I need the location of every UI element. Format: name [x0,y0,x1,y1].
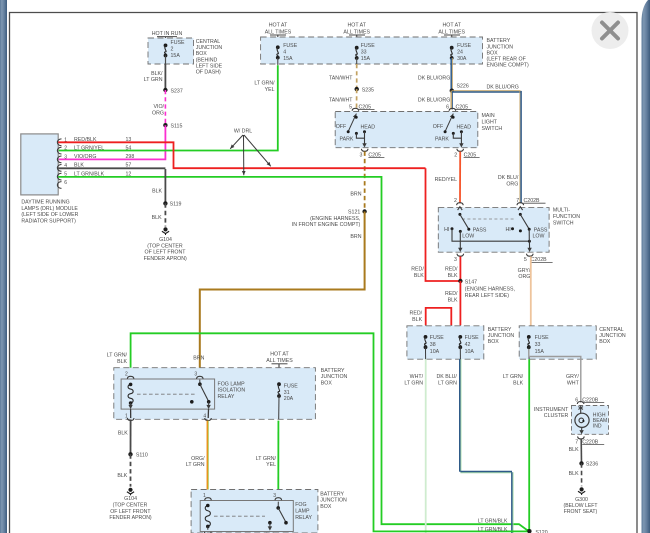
wire RED/YEL C205 pin2 to MFS pin2 [459,152,461,204]
DRL pin 1 [57,139,61,146]
svg-text:MAIN: MAIN [482,113,495,119]
svg-text:S236: S236 [586,462,598,468]
splice S119 [163,201,167,205]
svg-text:CENTRAL: CENTRAL [196,39,221,45]
svg-text:42: 42 [465,342,471,348]
svg-text:BRN: BRN [350,234,361,240]
svg-text:2: 2 [125,371,128,377]
DRL pin 4 [57,165,61,172]
battery junction box (fog lamp relay) [191,490,318,533]
svg-text:BATTERY: BATTERY [321,368,345,374]
svg-text:IN FRONT ENGINE COMPT): IN FRONT ENGINE COMPT) [292,222,361,228]
svg-text:LT GRN/: LT GRN/ [254,81,275,87]
svg-text:20A: 20A [284,396,294,402]
svg-text:S110: S110 [136,452,148,458]
svg-text:BOX: BOX [488,339,500,345]
svg-text:HOT AT: HOT AT [269,23,288,29]
svg-text:REAR LEFT SIDE): REAR LEFT SIDE) [465,293,509,299]
svg-text:OF LEFT FRONT: OF LEFT FRONT [144,250,186,256]
svg-text:LOW: LOW [533,234,545,240]
wire LT GRN/BLK DRL pin5 to bottom [58,177,529,530]
svg-text:RED/: RED/ [445,266,458,272]
DRL pin 2 [57,147,61,154]
svg-text:LOW: LOW [462,234,474,240]
wire BLK cluster to S236 [580,439,582,463]
svg-text:WHT/: WHT/ [410,374,424,380]
svg-text:PASS: PASS [473,227,487,233]
wire WHT/LT GRN below fuse 38 [425,347,427,359]
svg-text:38: 38 [430,342,436,348]
fuse 2 15A [164,44,168,48]
high beam indicator lamp [578,407,583,410]
svg-text:LAMP: LAMP [295,509,310,515]
svg-text:6: 6 [575,397,578,403]
fuse 24 30A [450,46,454,50]
svg-text:5: 5 [524,257,527,263]
svg-text:FUSE: FUSE [284,384,299,390]
close button [592,12,629,49]
svg-text:BOX: BOX [320,504,332,510]
connector C220B pin 7 [578,436,585,439]
svg-text:ORG/: ORG/ [191,456,205,462]
svg-text:S226: S226 [457,84,469,90]
svg-text:LAMPS (DRL) MODULE: LAMPS (DRL) MODULE [21,206,78,212]
svg-text:JUNCTION: JUNCTION [488,333,515,339]
svg-text:2: 2 [454,152,457,158]
wire RED/BLK jumper to fuse 38 [426,308,452,325]
svg-text:4: 4 [283,49,286,55]
wire RED/BLK S147 to fuse 42 [459,281,461,325]
DRL pin 3 [57,156,61,163]
svg-text:15A: 15A [171,53,181,59]
ground G104 (top center of left front fender apron) [163,227,167,231]
svg-text:BLK: BLK [569,471,579,477]
svg-text:JUNCTION: JUNCTION [196,45,223,51]
svg-text:7: 7 [516,198,519,204]
svg-text:BOX: BOX [321,381,333,387]
svg-text:LT GRN/: LT GRN/ [107,353,128,359]
battery junction box (lower) [407,326,484,359]
svg-text:10A: 10A [465,349,475,355]
svg-text:RED/YEL: RED/YEL [435,177,458,183]
svg-text:3: 3 [359,152,362,158]
splice S121 [362,209,366,213]
fog lamp isolation relay (inner box) [121,379,215,409]
svg-text:LT GRN: LT GRN [186,462,205,468]
wire BLK fog iso pin1 to S110 [130,421,132,455]
battery junction box (left rear of engine compt) [261,37,483,64]
svg-text:PASS: PASS [534,227,548,233]
wire LT GRN/BLK below CJB fuse 33 to S120 [528,347,530,359]
wire DK BLU/ORG S226 right and down to MFS pin7 [452,90,521,92]
DRL pin 5 [57,173,61,180]
svg-text:WHT: WHT [567,381,580,387]
fog lamp relay (inner box) [200,501,293,532]
MFS section 2 internals [518,207,523,210]
fog relay switch [277,502,279,508]
svg-text:ORG: ORG [506,182,518,188]
svg-text:DK BLU/: DK BLU/ [498,175,519,181]
svg-text:FUNCTION: FUNCTION [553,214,580,220]
splice S226 [450,89,454,93]
svg-text:BATTERY: BATTERY [488,327,512,333]
svg-text:DAYTIME RUNNING: DAYTIME RUNNING [21,200,69,206]
svg-text:RED/: RED/ [445,291,458,297]
svg-text:33: 33 [535,342,541,348]
svg-text:HI: HI [444,227,449,233]
svg-text:BLK: BLK [412,317,422,323]
svg-text:YEL: YEL [266,462,276,468]
svg-text:FUSE: FUSE [465,335,480,341]
svg-text:FOG LAMP: FOG LAMP [218,381,246,387]
wire DK BLU/LT GRN fuse 42 down/right/down [459,347,461,359]
svg-text:OFF: OFF [336,124,347,130]
svg-text:BOX: BOX [196,51,208,57]
svg-text:(ENGINE HARNESS,: (ENGINE HARNESS, [465,286,515,292]
svg-text:BLK: BLK [118,430,128,436]
wire DK BLU/ORG S226 to C205 pin6 [450,91,452,110]
svg-text:LT GRN/: LT GRN/ [503,374,524,380]
instrument cluster box [572,406,609,435]
wire LT GRN/YEL fuse4 down to DRL pin2 [277,58,279,65]
svg-text:RED/: RED/ [411,266,424,272]
svg-text:GRY/: GRY/ [518,268,531,274]
wire RED/BLK down to S147 [426,168,461,281]
svg-text:BLK: BLK [152,215,162,221]
wire RED/BLK MFS pin3 to S147 [459,256,461,281]
svg-text:SWITCH: SWITCH [553,220,574,226]
svg-text:S121: S121 [348,209,360,215]
svg-text:FUSE: FUSE [171,40,186,46]
svg-text:BRN: BRN [193,356,204,362]
central junction box (lower) [519,326,596,359]
svg-text:BLK: BLK [448,297,458,303]
svg-text:2: 2 [64,146,67,152]
svg-text:298: 298 [126,154,135,160]
svg-text:PARK: PARK [435,136,449,142]
wire TAN/WHT S235 to C205 pin5 (dashed) [356,89,358,109]
svg-text:FUSE: FUSE [430,335,445,341]
svg-text:54: 54 [126,145,132,151]
svg-text:3: 3 [454,257,457,263]
svg-text:15A: 15A [283,56,293,62]
svg-text:2: 2 [171,46,174,52]
svg-text:S119: S119 [170,201,182,207]
svg-text:(ENGINE HARNESS,: (ENGINE HARNESS, [310,216,360,222]
svg-text:ORG: ORG [152,111,164,117]
svg-text:HEAD: HEAD [457,124,472,130]
svg-text:3: 3 [64,154,67,160]
svg-text:BATTERY: BATTERY [320,491,344,497]
wire RED/BLK DRL pin1 right/down/right [58,142,425,168]
fog relay coil [205,506,210,527]
multi-function switch box [438,208,549,253]
svg-text:(LEFT SIDE OF LOWER: (LEFT SIDE OF LOWER [21,212,78,218]
right sidebar [642,0,650,533]
fog iso relay coil [128,384,133,403]
connector C205 pin 5 [352,108,359,111]
svg-text:HOT AT: HOT AT [270,352,289,358]
svg-text:DK BLU/: DK BLU/ [436,374,457,380]
svg-text:SWITCH: SWITCH [482,126,503,132]
svg-text:15A: 15A [535,349,545,355]
svg-text:15A: 15A [361,56,371,62]
svg-text:RELAY: RELAY [295,515,312,521]
svg-text:INSTRUMENT: INSTRUMENT [534,407,569,413]
svg-text:DK BLU/ORG: DK BLU/ORG [418,76,450,82]
wire ORG/LT GRN fog iso pin4 to fog relay pin1 [206,421,208,494]
svg-text:LT GRN/BLK: LT GRN/BLK [478,518,508,524]
wire BLK S119 to G104 (dashed) [164,203,166,226]
wire LT GRN/YEL fuse31 to fog relay pin3 [277,421,279,494]
svg-text:BLK: BLK [117,473,127,479]
fuse 42 10A [458,335,462,339]
svg-text:G104: G104 [124,496,137,502]
fuse 33 15A (CJB) [527,335,531,339]
ground G300 (below left front seat) [580,487,584,491]
svg-text:7: 7 [575,439,578,445]
svg-text:JUNCTION: JUNCTION [320,498,347,504]
svg-text:S237: S237 [171,88,183,94]
MFS section 1 internals [458,207,463,210]
svg-text:FENDER APRON): FENDER APRON) [109,515,152,521]
svg-text:FUSE: FUSE [283,43,298,49]
svg-text:S115: S115 [171,124,183,130]
battery junction box (fog lamp isolation relay) [114,368,316,420]
svg-text:FUSE: FUSE [361,43,376,49]
svg-text:W/ DRL: W/ DRL [234,129,252,135]
svg-text:JUNCTION: JUNCTION [599,333,626,339]
svg-text:VIO/ORG: VIO/ORG [74,154,96,160]
svg-text:24: 24 [457,49,463,55]
connector C202B pin 2 [457,203,464,206]
connector C202B pin 7 [517,203,524,206]
svg-text:BOX: BOX [487,50,499,56]
MFS HI crossover wire [452,229,529,241]
svg-text:33: 33 [361,49,367,55]
svg-text:OFF: OFF [433,124,444,130]
connector C202B pin 5 [527,254,534,257]
wire BLK DRL pin4 to S119 [58,167,165,169]
svg-text:DK BLU/ORG: DK BLU/ORG [487,84,519,90]
svg-text:LT GRN: LT GRN [438,381,457,387]
splice S110 [128,452,132,456]
wire TAN/WHT fuse33 to S235 (dashed) [356,58,358,64]
MFS mechanical coupling (dashed) [462,218,516,220]
svg-text:BLK: BLK [414,273,424,279]
daytime running lamps (DRL) module [21,134,58,195]
svg-text:YEL: YEL [265,87,275,93]
splice S147 [458,279,462,283]
connector C202B pin 3 [457,254,464,257]
svg-text:CLUSTER: CLUSTER [544,413,569,419]
svg-text:LIGHT: LIGHT [482,119,498,125]
svg-text:BLK: BLK [448,273,458,279]
svg-text:ISOLATION: ISOLATION [218,388,246,394]
svg-text:FRONT SEAT): FRONT SEAT) [564,509,598,515]
DRL pin 6 [57,182,61,189]
svg-text:IND: IND [593,423,602,429]
svg-text:HI: HI [505,227,510,233]
wire BLK S236 to G300 (dashed) [581,463,583,486]
svg-text:2: 2 [454,198,457,204]
svg-text:FENDER APRON): FENDER APRON) [144,256,187,262]
svg-text:HEAD: HEAD [361,124,376,130]
svg-text:RADIATOR SUPPORT): RADIATOR SUPPORT) [21,219,76,225]
svg-text:BATTERY: BATTERY [487,38,511,44]
wire DK BLU/ORG fuse24 to S226 [450,58,452,91]
svg-text:LT GRN/: LT GRN/ [256,456,277,462]
svg-text:31: 31 [284,390,290,396]
svg-text:LEFT SIDE: LEFT SIDE [196,63,223,69]
svg-text:(BEHIND: (BEHIND [196,57,218,63]
svg-text:ENGINE COMPT): ENGINE COMPT) [487,63,530,69]
wire VIO/ORG S115 to DRL pin3 [58,125,165,159]
svg-text:(LEFT REAR OF: (LEFT REAR OF [487,57,526,63]
wire BRN C205 pin3 to S121 (dashed) [364,152,366,212]
wire VIO/ORG S237 to S115 (dashed) [164,90,166,125]
svg-text:LT GRN: LT GRN [404,381,423,387]
svg-text:BLK/: BLK/ [151,71,163,77]
svg-text:LT GRN/BLK: LT GRN/BLK [478,527,508,533]
connector C205 pin 6 [449,108,456,111]
splice S237 [163,88,167,92]
fuse leads inside battery junction box [425,325,427,335]
fuse 33 15A [355,46,359,50]
connector C205 pin 3 [361,149,368,152]
svg-text:(TOP CENTER: (TOP CENTER [113,503,148,509]
wire GRY/WHT fuse 33 to instrument cluster [529,349,581,403]
svg-text:BLK: BLK [117,359,127,365]
svg-text:30A: 30A [457,56,467,62]
splice S235 [355,87,359,91]
svg-text:TAN/WHT: TAN/WHT [329,97,353,103]
svg-text:JUNCTION: JUNCTION [487,44,514,50]
splice S236 [579,461,583,465]
svg-text:CENTRAL: CENTRAL [599,327,624,333]
svg-text:BOX: BOX [599,339,611,345]
fuse 31 20A [277,382,281,386]
svg-text:DK BLU/ORG: DK BLU/ORG [418,97,450,103]
svg-text:S147: S147 [465,279,477,285]
main light switch box [335,112,478,148]
svg-text:(TOP CENTER: (TOP CENTER [147,243,183,249]
connector C205 pin 2 [457,149,464,152]
svg-text:MULTI-: MULTI- [553,208,570,214]
connector C220B pin 6 [577,402,584,405]
fuse 38 10A [424,335,428,339]
wire LT GRN/BLK fog iso relay pin2 up/right/down to S120 [131,333,529,531]
splice S115 [163,123,167,127]
svg-text:6: 6 [64,180,67,186]
svg-text:HOT AT: HOT AT [347,23,366,29]
svg-text:LT GRN: LT GRN [144,77,163,83]
svg-text:HOT AT: HOT AT [442,23,461,29]
svg-text:TAN/WHT: TAN/WHT [329,76,353,82]
svg-text:10A: 10A [430,349,440,355]
svg-text:GRY/: GRY/ [566,374,579,380]
svg-text:BLK: BLK [513,381,523,387]
svg-text:S235: S235 [362,88,374,94]
wire BLK/LT GRN fuse2 to S237 [165,56,167,65]
svg-text:OF DASH): OF DASH) [196,70,221,76]
svg-text:5: 5 [349,104,352,110]
wire BLK S110 to G104 (dashed) [130,454,132,486]
svg-text:6: 6 [446,104,449,110]
svg-text:G104: G104 [159,237,172,243]
svg-text:RED/: RED/ [410,310,423,316]
svg-text:LT GRN/YEL: LT GRN/YEL [74,145,104,151]
svg-text:FOG: FOG [295,502,306,508]
svg-text:JUNCTION: JUNCTION [321,374,348,380]
svg-text:FUSE: FUSE [535,335,550,341]
svg-text:FUSE: FUSE [457,43,472,49]
svg-text:BLK: BLK [152,189,162,195]
svg-text:VIO/: VIO/ [153,104,164,110]
svg-text:RELAY: RELAY [218,394,235,400]
splice S120 [527,529,531,533]
svg-text:BLK: BLK [569,447,579,453]
central junction box (behind dash) [148,38,194,64]
svg-text:PARK: PARK [340,136,354,142]
fuse 4 15A [276,45,280,49]
svg-text:OF LEFT FRONT: OF LEFT FRONT [110,509,151,515]
fog iso relay switch [199,380,201,385]
ground G104 (second, top center of left front fender apron) [128,488,132,492]
svg-text:3: 3 [194,371,197,377]
svg-text:BRN: BRN [350,191,361,197]
svg-text:ORG: ORG [518,274,530,280]
